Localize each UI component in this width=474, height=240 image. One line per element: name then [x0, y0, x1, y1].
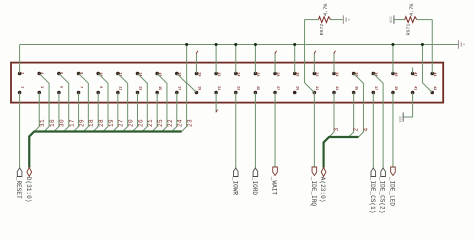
wire pin34 stub up: [333, 53, 335, 73]
net stub flag (pin34): [334, 51, 336, 54]
wire pin32 stub up: [313, 53, 315, 73]
wire pin 10 (D19) diagonal and down to bus entry: [98, 74, 108, 132]
svg-text:31: 31: [314, 86, 318, 90]
svg-text:13: 13: [137, 86, 141, 90]
wire pin26 to GND rail: [254, 45, 256, 74]
resistor R971 body: [405, 17, 417, 23]
pin 36 (top row col 18): [352, 72, 356, 76]
svg-text:39: 39: [393, 86, 397, 90]
wire pin35 (A2) down to A bus entry: [349, 93, 354, 138]
svg-text:31: 31: [39, 119, 46, 127]
svg-text:43: 43: [432, 86, 436, 90]
wire pin 11 (D27) down to bus entry: [113, 93, 118, 132]
svg-text:22: 22: [167, 119, 174, 127]
pin 5 (bottom row col 3): [57, 91, 61, 95]
wire pin 15 (D25) down to bus entry: [152, 93, 157, 132]
pin 27 (bottom row col 14): [273, 91, 277, 95]
svg-text:41: 41: [412, 86, 416, 90]
svg-text:30: 30: [59, 119, 66, 127]
svg-text:37: 37: [373, 86, 377, 90]
resistor R972 body: [319, 17, 331, 23]
svg-text:_IORD: _IORD: [251, 176, 258, 196]
svg-text:VCC: VCC: [399, 115, 403, 123]
port terminal _IOWR: [233, 168, 238, 177]
pin 31 (bottom row col 16): [313, 91, 317, 95]
port terminal _RESET: [17, 168, 22, 177]
wire pin2 to GND rail: [19, 45, 21, 74]
wire pin25 to _IORD terminal: [254, 93, 256, 169]
pin 38 (top row col 19): [372, 72, 376, 76]
wire pin 6 (D17) diagonal and down to bus entry: [59, 74, 69, 132]
svg-text:_IOWR: _IOWR: [231, 176, 238, 196]
svg-text:1: 1: [19, 86, 23, 88]
svg-text:_WAIT: _WAIT: [271, 176, 278, 196]
pin 23 (bottom row col 12): [234, 91, 238, 95]
svg-text:2: 2: [353, 127, 360, 131]
pin 19 (bottom row col 10): [195, 91, 199, 95]
pin 7 (bottom row col 4): [77, 91, 81, 95]
svg-text:28: 28: [98, 119, 105, 127]
svg-text:D(31:0): D(31:0): [25, 177, 32, 203]
pin 13 (bottom row col 7): [136, 91, 140, 95]
net stub flag (pin32): [314, 51, 316, 54]
wire R972 right lead to ground: [331, 19, 343, 21]
port terminal _IDE_IRQ: [312, 167, 317, 176]
svg-text:35: 35: [353, 86, 357, 90]
svg-text:4.7K: 4.7K: [409, 3, 415, 16]
pin 24 (top row col 12): [234, 72, 238, 76]
pin 43 (bottom row col 22): [430, 91, 434, 95]
svg-text:19: 19: [108, 119, 115, 127]
wire pin 5 (D30) down to bus entry: [54, 93, 59, 132]
wire pin 4 (D16) diagonal and down to bus entry: [39, 74, 49, 132]
wire pin 3 (D31) down to bus entry: [34, 93, 39, 132]
port terminal _IORD: [253, 168, 258, 177]
svg-text:3: 3: [333, 127, 340, 131]
junction on GND rail (pin19): [185, 43, 188, 46]
wire GND rail: [20, 44, 458, 46]
junction on GND rail (pin24): [234, 43, 237, 46]
svg-text:25: 25: [255, 86, 259, 90]
wire pin31 to _IDE_IRQ terminal: [313, 93, 315, 168]
wire R972 left lead: [305, 19, 319, 21]
wire pin37 to _IDE_CS(1) terminal: [372, 93, 374, 169]
svg-text:27: 27: [118, 119, 125, 127]
svg-text:26: 26: [137, 119, 144, 127]
pin 9 (bottom row col 5): [96, 91, 100, 95]
pin 21 (bottom row col 11): [214, 91, 218, 95]
svg-text:_IDE_CS(2): _IDE_CS(2): [379, 176, 386, 214]
svg-text:_RESET: _RESET: [15, 176, 22, 199]
pin 42 (top row col 21): [411, 72, 415, 76]
svg-text:25: 25: [157, 119, 164, 127]
pin 26 (top row col 13): [254, 72, 258, 76]
wire pin28 stub up: [274, 53, 276, 73]
wire pin 16 (D22) diagonal and down to bus entry: [157, 74, 167, 132]
wire pin38 diagonal and down to _IDE_CS(2) terminal: [373, 74, 383, 169]
net stub flag (pin28): [275, 51, 277, 54]
bus terminal D(31:0): [27, 168, 32, 177]
pin 34 (top row col 17): [332, 72, 336, 76]
pin 15 (bottom row col 8): [155, 91, 159, 95]
bus A(23:0): [324, 137, 359, 168]
svg-text:_IDE_IRQ: _IDE_IRQ: [310, 176, 317, 207]
wire pin41 to VCC supply: [403, 93, 412, 118]
junction on GND rail (pin43): [421, 43, 424, 46]
svg-text:7: 7: [78, 86, 82, 88]
wire pin22 to GND rail: [215, 45, 217, 74]
wire R971 right lead and drop to pin44: [417, 19, 432, 21]
wire pin 18 (D23) diagonal and down to bus entry: [177, 74, 187, 132]
connector J1 outline (44-pin IDE header): [11, 63, 443, 103]
VCC supply symbol (top): [393, 15, 395, 23]
pin 4 (top row col 2): [37, 72, 41, 76]
svg-text:29: 29: [295, 86, 299, 90]
wire pin1 to _RESET terminal: [19, 93, 21, 169]
ground symbol at R972: [343, 15, 349, 23]
ground symbol at rail right end: [458, 40, 464, 48]
svg-text:9: 9: [98, 86, 102, 88]
wire pin43 to GND rail (diagonal): [422, 45, 432, 93]
svg-text:20: 20: [127, 119, 134, 127]
pin 35 (bottom row col 18): [352, 91, 356, 95]
pin 20 (top row col 10): [195, 72, 199, 76]
wire pin 13 (D26) down to bus entry: [133, 93, 138, 132]
pin 33 (bottom row col 17): [332, 91, 336, 95]
VCC supply symbol (bottom): [402, 112, 404, 121]
wire pin24 to GND rail: [235, 45, 237, 74]
net stub flag (pin21): [216, 110, 218, 113]
junction on GND rail (pin26): [254, 43, 257, 46]
wire pin30 to GND rail: [294, 45, 296, 74]
pin 6 (top row col 3): [57, 72, 61, 76]
wire pin20 stub up: [195, 53, 197, 73]
pin 3 (bottom row col 2): [37, 91, 41, 95]
pin 2 (top row col 1): [18, 72, 22, 76]
svg-text:15: 15: [157, 86, 161, 90]
port terminal _IDE_CS(1): [371, 168, 376, 177]
pin 12 (top row col 6): [116, 72, 120, 76]
svg-text:29: 29: [78, 119, 85, 127]
port terminal _IDE_LED: [391, 167, 396, 176]
svg-text:VCC: VCC: [390, 15, 394, 23]
wire pin19 to GND rail (diagonal): [187, 45, 197, 93]
svg-text:R972: R972: [319, 24, 325, 36]
wire pin 17 (D24) down to bus entry: [172, 93, 177, 132]
svg-text:3: 3: [39, 86, 43, 88]
bus D(31:0): [29, 132, 181, 168]
svg-text:17: 17: [177, 86, 181, 90]
junction on GND rail (pin30): [293, 43, 296, 46]
svg-text:4.7K: 4.7K: [323, 3, 329, 16]
pin 28 (top row col 14): [273, 72, 277, 76]
wire pin42 stub up: [412, 68, 414, 74]
svg-text:17: 17: [69, 119, 76, 127]
pin 10 (top row col 5): [96, 72, 100, 76]
wire pin 12 (D20) diagonal and down to bus entry: [118, 74, 128, 132]
svg-text:_IDE_LED: _IDE_LED: [389, 176, 396, 207]
svg-text:R971: R971: [406, 24, 412, 36]
pin 39 (bottom row col 20): [391, 91, 395, 95]
pin 40 (top row col 20): [391, 72, 395, 76]
pin 8 (top row col 4): [77, 72, 81, 76]
junction on GND rail (pin22): [215, 43, 218, 46]
wire pin27 to _WAIT terminal: [274, 93, 276, 168]
wire pin31 diagonal up to resistor R972: [305, 20, 315, 93]
net stub flag (pin20): [196, 51, 198, 54]
pin 25 (bottom row col 13): [254, 91, 258, 95]
wire pin 7 (D29) down to bus entry: [74, 93, 79, 132]
pin 18 (top row col 9): [175, 72, 179, 76]
wire R971 left lead: [394, 19, 404, 21]
wire pin23 to _IOWR terminal: [235, 93, 237, 169]
pin 16 (top row col 8): [155, 72, 159, 76]
port terminal _IDE_CS(2): [381, 168, 386, 177]
pin 22 (top row col 11): [214, 72, 218, 76]
wire pin36 (A4) diagonal and down to A bus entry: [354, 74, 364, 138]
svg-text:A(23:0): A(23:0): [319, 177, 326, 203]
wire pin33 (A3) down to A bus entry: [329, 93, 334, 138]
svg-text:21: 21: [147, 119, 154, 127]
svg-text:27: 27: [275, 86, 279, 90]
wire pin21 stub down: [215, 93, 217, 113]
svg-text:24: 24: [177, 119, 184, 127]
port terminal _WAIT: [273, 167, 278, 176]
svg-text:5: 5: [59, 86, 63, 88]
svg-text:4: 4: [362, 127, 369, 131]
wire pin 9 (D28) down to bus entry: [93, 93, 98, 132]
pin 32 (top row col 16): [313, 72, 317, 76]
pin 14 (top row col 7): [136, 72, 140, 76]
svg-text:18: 18: [88, 119, 95, 127]
pin 30 (top row col 15): [293, 72, 297, 76]
pin 29 (bottom row col 15): [293, 91, 297, 95]
wire pin 14 (D21) diagonal and down to bus entry: [138, 74, 148, 132]
pin 11 (bottom row col 6): [116, 91, 120, 95]
junction on GND rail (pin40): [391, 43, 394, 46]
wire pin 8 (D18) diagonal and down to bus entry: [79, 74, 89, 132]
wire pin39 to _IDE_LED terminal: [392, 93, 394, 168]
pin 17 (bottom row col 9): [175, 91, 179, 95]
svg-text:23: 23: [186, 119, 193, 127]
pin 44 (top row col 22): [430, 72, 434, 76]
pin 41 (bottom row col 21): [411, 91, 415, 95]
svg-text:_IDE_CS(1): _IDE_CS(1): [369, 176, 376, 214]
svg-text:11: 11: [118, 86, 122, 90]
svg-text:23: 23: [236, 86, 240, 90]
wire pin40 to GND rail: [392, 45, 394, 74]
svg-text:33: 33: [334, 86, 338, 90]
svg-text:19: 19: [196, 86, 200, 90]
pin 1 (bottom row col 1): [18, 91, 22, 95]
pin 37 (bottom row col 19): [372, 91, 376, 95]
bus terminal A(23:0): [321, 168, 326, 177]
svg-text:21: 21: [216, 86, 220, 90]
svg-text:16: 16: [49, 119, 56, 127]
wire pin44 up to resistor R971: [431, 20, 433, 74]
